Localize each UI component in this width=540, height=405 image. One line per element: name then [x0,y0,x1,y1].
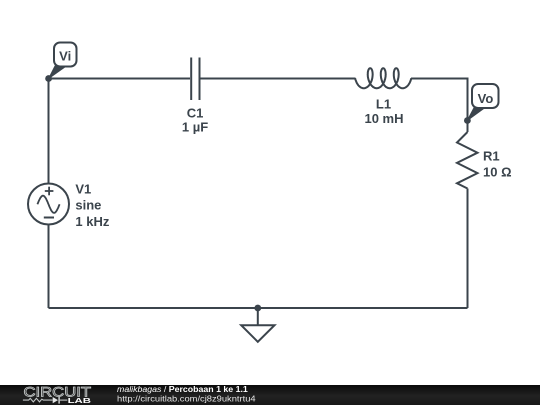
V1 plus sign [45,187,54,196]
V1 sine symbol [37,196,59,213]
node tag Vi tail [49,66,66,79]
svg-text:Vo: Vo [478,91,494,106]
svg-text:10 mH: 10 mH [364,111,403,126]
footer bar [0,385,540,405]
wire top-left horizontal [49,78,191,80]
wire left vertical lower [48,225,50,309]
svg-text:10 Ω: 10 Ω [483,165,512,180]
node tag Vo box [472,84,499,108]
svg-text:1 kHz: 1 kHz [75,214,109,229]
inductor L1 coil [355,68,411,88]
ground stem [257,308,259,325]
svg-text:1 µF: 1 µF [182,120,208,135]
node dot Vi [45,75,52,82]
logo resistor squiggle [23,398,53,402]
voltage source V1 circle [28,184,69,225]
wire inductor to corner [411,78,468,80]
svg-text:V1: V1 [75,182,91,197]
svg-text:sine: sine [75,198,101,213]
svg-text:http://circuitlab.com/cj8z9ukn: http://circuitlab.com/cj8z9ukntrtu4 [117,394,256,403]
logo diode cathode bar [58,397,60,404]
svg-text:L1: L1 [376,97,391,112]
node dot Vo [464,117,471,124]
logo diode symbol [53,397,58,403]
svg-text:LAB: LAB [68,396,92,404]
logo diode lead [60,399,68,401]
capacitor C1 [191,58,199,101]
wire right vertical upper [467,78,469,133]
svg-text:Vi: Vi [59,49,71,64]
node dot ground [254,305,261,312]
wire bottom horizontal [49,307,468,309]
wire left vertical upper [48,79,50,184]
node tag Vo tail [467,108,484,121]
svg-text:malikbagas / Percobaan 1 ke 1.: malikbagas / Percobaan 1 ke 1.1 [117,385,248,394]
wire cap to inductor [201,78,356,80]
V1 minus sign [44,217,54,219]
ground triangle [241,325,274,342]
footer background [0,385,540,405]
resistor R1 zigzag [457,132,478,189]
node tag Vi box [54,43,77,67]
svg-text:R1: R1 [483,149,500,164]
wire right vertical lower [467,189,469,309]
svg-text:C1: C1 [187,106,204,121]
